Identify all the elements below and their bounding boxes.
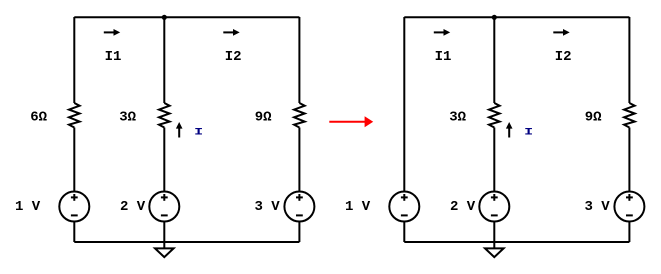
wire left branch lower (left circuit) [73, 222, 75, 243]
svg-text:3Ω: 3Ω [119, 110, 136, 126]
wire ground stub (right circuit) [493, 242, 495, 248]
svg-text:9Ω: 9Ω [585, 110, 602, 126]
svg-text:I1: I1 [435, 49, 452, 65]
wire right branch upper (right circuit) [628, 17, 630, 103]
wire right branch lower (left circuit) [298, 222, 300, 243]
resistor R3 9Ω (right circuit) [624, 103, 635, 128]
svg-text:2 V: 2 V [120, 199, 146, 215]
svg-text:1 V: 1 V [345, 199, 371, 215]
wire right branch middle (right circuit) [628, 128, 630, 192]
wire middle branch lower (right circuit) [493, 222, 495, 243]
current arrow I (left circuit) [178, 128, 180, 137]
svg-text:I: I [194, 126, 203, 138]
wire middle branch upper (right circuit) [493, 17, 495, 103]
resistor R2 3Ω (right circuit) [489, 103, 500, 128]
svg-text:9Ω: 9Ω [255, 110, 272, 126]
wire bottom rail node B (left circuit) [74, 241, 299, 243]
wire left branch middle (left circuit) [73, 128, 75, 192]
wire bottom rail node B (right circuit) [404, 241, 629, 243]
wire top rail node A (left circuit) [74, 16, 299, 18]
resistor R1 6Ω (left circuit) [69, 103, 80, 128]
resistor R3 9Ω (left circuit) [294, 103, 305, 128]
current arrow I2 (left circuit) [223, 31, 233, 33]
wire left branch lower (right circuit) [403, 222, 405, 243]
resistor R2 3Ω (left circuit) [159, 103, 170, 128]
ground symbol (left circuit) [155, 248, 174, 257]
svg-text:3Ω: 3Ω [449, 110, 466, 126]
svg-text:I1: I1 [105, 49, 122, 65]
svg-text:1 V: 1 V [15, 199, 41, 215]
wire middle branch lower (left circuit) [163, 222, 165, 243]
current arrow I (right circuit) [508, 128, 510, 137]
svg-text:3 V: 3 V [255, 199, 281, 215]
svg-text:I2: I2 [225, 49, 242, 65]
svg-text:I2: I2 [555, 49, 572, 65]
wire left branch upper (left circuit) [73, 17, 75, 103]
voltage source V3 3V (right circuit) [614, 192, 644, 222]
transformation arrow (red) [329, 116, 373, 127]
wire middle branch middle (left circuit) [163, 128, 165, 192]
wire right branch lower (right circuit) [628, 222, 630, 243]
voltage source V2 2V (right circuit) [479, 192, 509, 222]
ground symbol (right circuit) [485, 248, 504, 257]
voltage source V2 2V (left circuit) [149, 192, 179, 222]
junction dot node A (right circuit) [492, 15, 497, 20]
voltage source V1 1V (left circuit) [59, 192, 89, 222]
wire top rail node A (right circuit) [404, 16, 629, 18]
wire ground stub (left circuit) [163, 242, 165, 248]
wire left branch upper (right circuit) [403, 17, 405, 192]
current arrow I2 (right circuit) [553, 31, 563, 33]
current arrow I1 (left circuit) [104, 31, 114, 33]
voltage source V1 1V (right circuit) [389, 192, 419, 222]
wire right branch middle (left circuit) [298, 128, 300, 192]
svg-text:2 V: 2 V [450, 199, 476, 215]
wire middle branch upper (left circuit) [163, 17, 165, 103]
junction dot node A (left circuit) [162, 15, 167, 20]
svg-text:I: I [524, 126, 533, 138]
wire right branch upper (left circuit) [298, 17, 300, 103]
voltage source V3 3V (left circuit) [284, 192, 314, 222]
wire middle branch middle (right circuit) [493, 128, 495, 192]
svg-text:3 V: 3 V [585, 199, 611, 215]
current arrow I1 (right circuit) [434, 31, 444, 33]
svg-text:6Ω: 6Ω [30, 110, 47, 126]
